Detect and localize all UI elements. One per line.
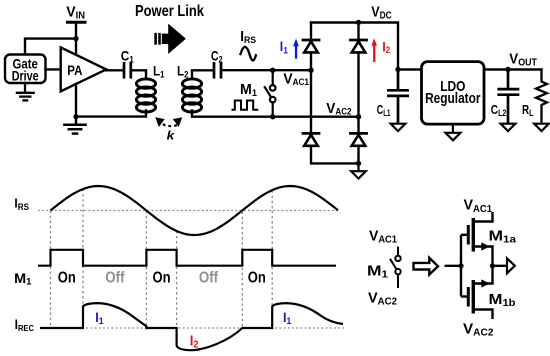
diode D1 bbox=[303, 23, 319, 71]
ground PA (earth) bbox=[64, 117, 85, 134]
svg-text:Off: Off bbox=[105, 270, 125, 287]
arrow M1b source bbox=[481, 279, 490, 287]
dashed vertical t3 bbox=[145, 211, 147, 328]
capacitor CL1 bbox=[388, 70, 407, 124]
node CL1 bbox=[395, 67, 400, 72]
svg-text:On: On bbox=[248, 270, 266, 287]
diode D2 bbox=[351, 23, 367, 117]
svg-text:Off: Off bbox=[199, 270, 219, 287]
implies arrow bbox=[414, 258, 439, 275]
arrow M1a source bbox=[481, 242, 490, 250]
wire C1 to L1 bbox=[132, 70, 146, 78]
wire VAC1 down bbox=[310, 70, 312, 133]
wire LDO to RL bbox=[484, 68, 542, 70]
wire gate input bbox=[445, 265, 462, 267]
node M1 top bbox=[270, 68, 275, 73]
node PA ground rail bbox=[73, 114, 78, 119]
LDO Regulator box bbox=[422, 62, 485, 125]
square wave glyph bbox=[232, 101, 259, 110]
ground CL2 bbox=[501, 124, 516, 131]
arrow I1 blue bbox=[293, 39, 299, 59]
node VAC2 bbox=[356, 114, 361, 119]
wire output port bbox=[493, 265, 507, 267]
waveform IRS sine bbox=[51, 186, 339, 235]
node VIN-PA junction bbox=[73, 36, 78, 41]
wire L2 bottom rail to M1 bbox=[192, 111, 273, 117]
ground RL bbox=[534, 124, 549, 131]
wire Gate Drive to PA bbox=[46, 68, 61, 70]
svg-text:On: On bbox=[152, 270, 170, 287]
node VAC1 bbox=[308, 68, 313, 73]
node M1 bottom bbox=[270, 114, 275, 119]
wire VDC top rail bbox=[311, 23, 398, 70]
wire gate bus bbox=[460, 235, 462, 297]
diode D4 bbox=[351, 117, 367, 164]
svg-text:PA: PA bbox=[67, 62, 82, 78]
inductor L1 bbox=[136, 79, 155, 112]
wire VAC2 rail bbox=[273, 115, 359, 117]
svg-text:Regulator: Regulator bbox=[425, 91, 481, 107]
transistor M1a bbox=[461, 234, 468, 236]
wire VIN down to PA bbox=[75, 24, 77, 55]
svg-text:On: On bbox=[58, 270, 76, 287]
node out bbox=[490, 263, 495, 268]
dotted baseline IREC bbox=[40, 327, 345, 329]
switch M1 symbol bbox=[390, 247, 401, 289]
switch M1 bbox=[265, 73, 276, 117]
ground Gate Drive (earth) bbox=[17, 83, 34, 100]
wire C2 to VAC1 bbox=[222, 69, 311, 71]
ground bridge bbox=[351, 163, 366, 178]
node VOUT bbox=[505, 67, 510, 72]
wire L1 to rail bbox=[76, 111, 146, 117]
waveform IREC bbox=[40, 303, 343, 350]
inductor L2 bbox=[182, 79, 201, 112]
dashed vertical t6 bbox=[271, 191, 273, 329]
dashed vertical t2 bbox=[82, 189, 84, 328]
op-amp PA bbox=[61, 47, 106, 91]
wire node to Gate Drive bbox=[25, 39, 76, 55]
supply VIN bar bbox=[68, 21, 86, 24]
wire CL1 to LDO bbox=[398, 68, 422, 70]
svg-text:Power Link: Power Link bbox=[135, 3, 204, 20]
wire PA out to C1 bbox=[106, 69, 122, 71]
waveform M1 bbox=[38, 250, 336, 266]
Power Link arrow bbox=[154, 24, 186, 54]
Gate Drive box bbox=[5, 55, 46, 84]
ground LDO bbox=[446, 124, 461, 140]
coupling k arrow bbox=[163, 124, 179, 126]
dotted baseline IRS bbox=[38, 210, 338, 212]
dashed vertical t5 bbox=[241, 212, 243, 328]
capacitor C2 bbox=[214, 63, 221, 77]
svg-text:Drive: Drive bbox=[12, 69, 39, 84]
capacitor C1 bbox=[124, 63, 131, 77]
capacitor CL2 bbox=[499, 70, 518, 124]
wire L2 top to C2 bbox=[192, 70, 213, 78]
port triangle bbox=[507, 258, 515, 273]
node VDC bbox=[356, 20, 361, 25]
node bridge ground bbox=[356, 161, 361, 166]
diode D3 bbox=[303, 133, 359, 163]
dashed vertical t4 bbox=[176, 231, 178, 328]
wire PA bottom to rail bbox=[75, 84, 77, 117]
ground CL1 bbox=[391, 124, 406, 131]
sine squiggle IRS bbox=[240, 47, 256, 61]
transistor M1b bbox=[461, 295, 468, 297]
arrow I2 red bbox=[371, 38, 377, 62]
dashed vertical t1 bbox=[50, 211, 52, 329]
node gate bbox=[458, 263, 463, 268]
resistor RL bbox=[536, 70, 547, 124]
